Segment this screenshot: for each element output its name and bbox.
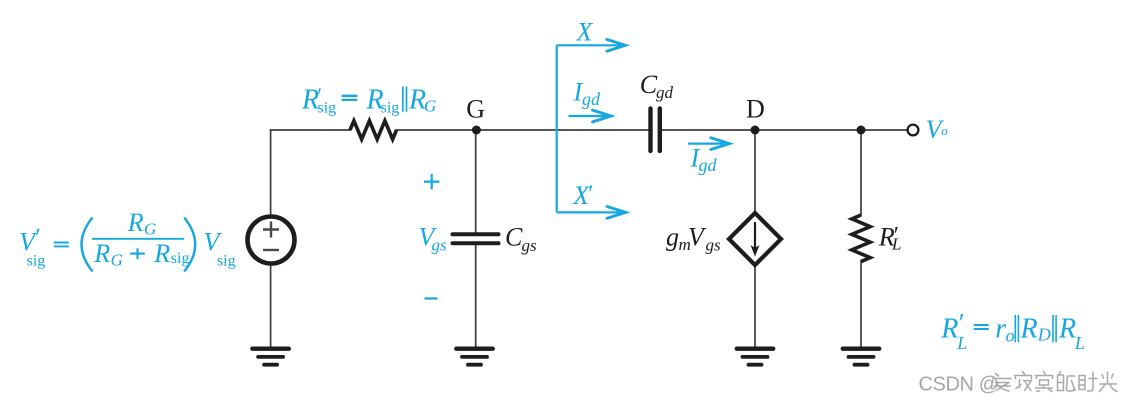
capacitor Cgs plates (453, 234, 499, 243)
node at RL junction dot (857, 126, 866, 135)
formula V'sig = (RG/(RG+Rsig))Vsig (19, 208, 235, 270)
fraction bar (92, 238, 184, 240)
svg-text:L: L (1074, 333, 1085, 353)
watermark chinese glyphs (drawn) (993, 372, 1117, 392)
minus polarity of Vgs (425, 297, 438, 299)
svg-text:′: ′ (587, 181, 593, 207)
wire: resistor RL bottom to ground (860, 260, 862, 349)
svg-text:G: G (424, 96, 436, 115)
svg-text:g: g (666, 223, 679, 252)
svg-text:L: L (891, 235, 901, 254)
dependent source gmVgs diamond (729, 213, 781, 265)
wire: D node down to diamond source (754, 130, 756, 212)
svg-text:gd: gd (582, 89, 601, 109)
svg-text:D: D (1037, 325, 1051, 345)
wire: source bottom to ground (270, 264, 272, 349)
ground under diamond (737, 349, 773, 365)
svg-text:sig: sig (381, 100, 400, 117)
svg-text:R: R (153, 239, 170, 268)
capacitor Cgd plates (651, 109, 660, 152)
X arrow (557, 44, 620, 46)
node D dot (751, 126, 760, 135)
plus sign in denominator (130, 248, 145, 259)
wire: diamond bottom to ground (754, 266, 756, 349)
svg-text:R: R (1058, 313, 1076, 344)
minus sign inside source (263, 249, 279, 251)
arrow inside diamond (754, 222, 756, 249)
svg-text:R: R (940, 313, 958, 344)
equals sign in R'L formula (974, 325, 989, 329)
svg-text:sig: sig (318, 100, 337, 117)
big right paren (184, 218, 195, 272)
svg-text:G: G (466, 95, 485, 124)
svg-text:C: C (505, 223, 523, 252)
svg-text:G: G (144, 219, 156, 238)
svg-text:R: R (127, 208, 144, 237)
svg-text:gd: gd (656, 83, 674, 102)
Vo terminal open circle (908, 125, 919, 136)
svg-text:CSDN @: CSDN @ (919, 373, 999, 395)
svg-text:L: L (956, 333, 967, 353)
ground under RL (843, 349, 879, 365)
svg-text:sig: sig (171, 250, 190, 267)
resistor R'sig zigzag (350, 121, 397, 139)
wire: resistor to Cgd left plate (396, 129, 649, 131)
big left paren (82, 218, 93, 272)
svg-text:D: D (746, 95, 765, 124)
plus polarity of Vgs (424, 174, 440, 190)
parallel bars in R'L formula (1015, 315, 1056, 342)
wire: top horizontal left segment to resistor (270, 129, 351, 131)
svg-text:gd: gd (699, 155, 718, 175)
wire: G node down to Cgs top plate (475, 130, 477, 233)
X' arrow (557, 211, 621, 213)
plus sign inside source (263, 222, 279, 238)
Igd arrow left of cut (569, 115, 607, 117)
voltage source circle (248, 217, 295, 264)
equals sign in V'sig formula (54, 243, 69, 247)
Igd arrow right of Cgd (688, 143, 724, 145)
resistor R'L vertical zigzag (852, 215, 870, 262)
svg-text:R: R (93, 239, 110, 268)
formula R'L = ro||RD||RL (940, 309, 1085, 354)
parallel bars in R'sig label (403, 87, 407, 112)
node G dot (472, 126, 481, 135)
svg-text:sig: sig (27, 253, 46, 270)
svg-text:o: o (1006, 325, 1015, 345)
ground under source (252, 349, 288, 365)
svg-text:o: o (941, 123, 948, 138)
ground under Cgs (456, 349, 492, 365)
label R'sig = Rsig||RG (301, 83, 436, 117)
svg-text:gs: gs (706, 236, 722, 255)
svg-text:gs: gs (432, 236, 448, 255)
svg-text:gs: gs (522, 236, 538, 255)
svg-text:X: X (576, 18, 594, 47)
svg-text:G: G (111, 251, 123, 270)
wire: RL node down to resistor RL (860, 130, 862, 216)
wire: left vertical from top wire to source top (270, 129, 272, 216)
svg-text:′: ′ (34, 225, 40, 251)
svg-text:R: R (1020, 313, 1038, 344)
wire: Cgd right plate to Vo terminal (662, 129, 908, 131)
svg-text:sig: sig (217, 253, 236, 270)
equals sign in R'sig label (342, 96, 358, 100)
wire: Cgs bottom plate to ground (475, 244, 477, 349)
cut line XX' vertical (556, 45, 558, 212)
